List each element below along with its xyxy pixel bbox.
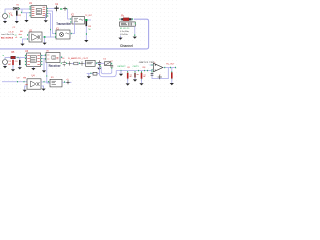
svg-text:DETECT: DETECT — [118, 66, 127, 68]
svg-text:.SMTC1 TNT: .SMTC1 TNT — [138, 62, 155, 64]
svg-text:1k: 1k — [11, 15, 13, 17]
svg-text:c: c — [160, 74, 161, 76]
svg-text:C7: C7 — [110, 61, 112, 63]
svg-text:BA5_SOURCE: BA5_SOURCE — [1, 37, 13, 40]
svg-text:K1 L1 L2 1: K1 L1 L2 1 — [120, 28, 130, 30]
svg-text:L2=10u: L2=10u — [120, 34, 129, 36]
svg-text:.tran 0 3m 0 1u: .tran 0 3m 0 1u — [1, 33, 14, 36]
svg-text:in: in — [3, 55, 5, 57]
svg-text:Receiver: Receiver — [49, 64, 62, 68]
svg-text:Channel: Channel — [120, 44, 133, 48]
svg-text:Transmitter: Transmitter — [56, 22, 72, 26]
svg-text:TX_OUT: TX_OUT — [85, 15, 93, 17]
svg-text:Rx_OUT: Rx_OUT — [166, 63, 175, 65]
svg-text:OUT1: OUT1 — [133, 66, 140, 68]
svg-text:L1=10u: L1=10u — [120, 31, 130, 33]
svg-text:S_AMPLTD_OUT: S_AMPLTD_OUT — [68, 57, 89, 60]
